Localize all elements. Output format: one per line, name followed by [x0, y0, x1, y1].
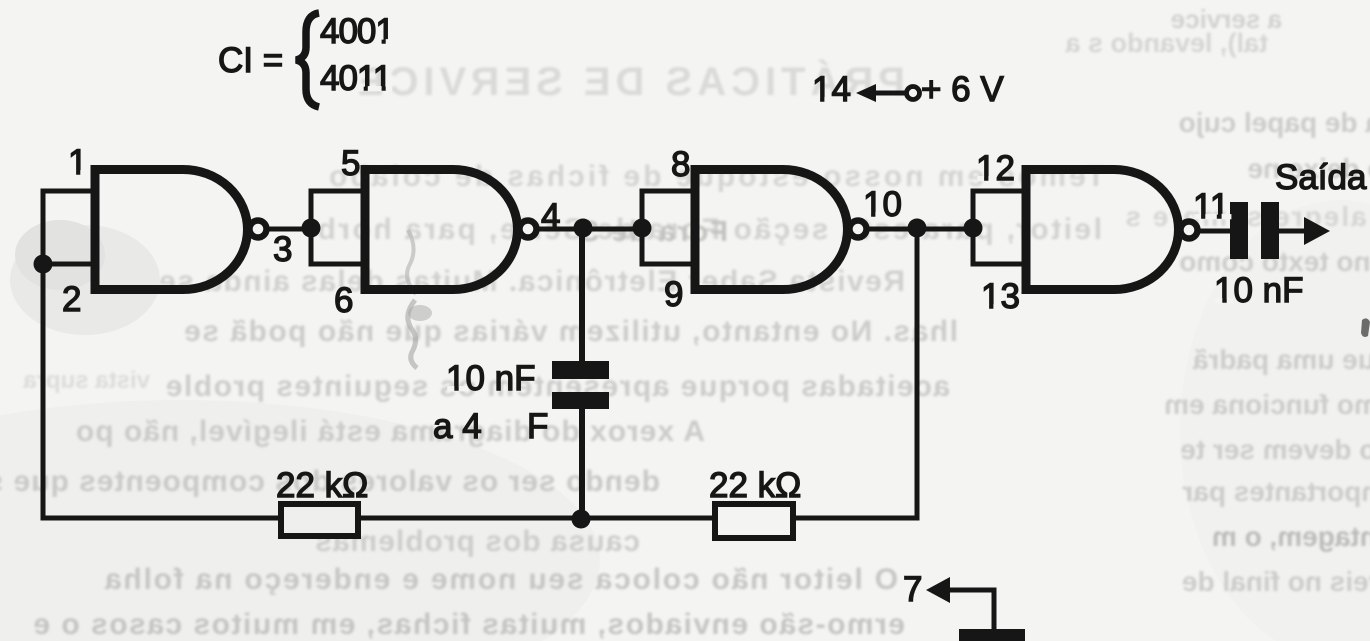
+6V open terminal — [907, 87, 920, 100]
gate U1B body — [365, 170, 518, 290]
svg-text:A xerox do diagrama está ilegí: A xerox do diagrama está ilegível, não p… — [75, 415, 705, 448]
junction dot U1D input — [964, 219, 983, 238]
gate U1C output bubble pin 10 — [850, 221, 867, 238]
stray mark right edge — [1361, 318, 1370, 337]
capacitor C1 top branch wire — [579, 228, 585, 361]
brace for IC types — [296, 13, 319, 107]
svg-text:ontagem, o m: ontagem, o m — [1212, 521, 1370, 552]
svg-text:lhas. No entanto, utilizem vár: lhas. No entanto, utilizem várias que nã… — [183, 315, 958, 348]
svg-text:14: 14 — [812, 70, 851, 109]
svg-text:8: 8 — [671, 145, 690, 184]
gate U1D output bubble pin 11 — [1181, 222, 1198, 239]
pin 1 stub — [43, 189, 95, 194]
svg-text:12: 12 — [976, 149, 1015, 188]
svg-text:omo funciona em: omo funciona em — [1164, 389, 1370, 420]
svg-text:Fora de S: Fora de S — [578, 216, 728, 248]
svg-text:Saída: Saída — [1275, 158, 1367, 197]
svg-text:22 kΩ: 22 kΩ — [709, 466, 801, 505]
gate U1C body — [695, 170, 848, 290]
pin 6 stub — [311, 262, 365, 267]
wire pin3 to U1B — [266, 227, 313, 232]
svg-text:22 kΩ: 22 kΩ — [276, 466, 368, 505]
capacitor C1 bottom plate — [552, 392, 609, 409]
svg-text:10 nF: 10 nF — [446, 359, 536, 398]
svg-text:4001: 4001 — [320, 12, 394, 51]
digit-1 foot-serif trims (font cleanup, not circuit) — [69, 39, 1233, 392]
svg-text:6: 6 — [334, 281, 353, 320]
svg-text:ermo-são enviados, muitas fich: ermo-são enviados, muitas fichas, em mui… — [32, 608, 905, 641]
pin 5 stub — [311, 189, 365, 194]
node A junction dot — [574, 219, 593, 238]
svg-text:7: 7 — [903, 570, 922, 609]
capacitor C2 left plate — [1230, 202, 1248, 259]
svg-text:10: 10 — [863, 185, 902, 224]
svg-text:tal), levando s a: tal), levando s a — [1064, 28, 1268, 58]
junction dot U1C input — [633, 219, 652, 238]
U1C input tie bar — [640, 189, 645, 267]
svg-text:3: 3 — [273, 230, 292, 269]
svg-text:2: 2 — [62, 280, 81, 319]
pin 7 wire to ground — [947, 590, 994, 631]
+6V wire — [874, 91, 907, 96]
svg-text:que uma padrã: que uma padrã — [1192, 344, 1370, 375]
svg-text:10 nF: 10 nF — [1214, 271, 1304, 310]
gate U1D body — [1026, 170, 1179, 290]
svg-text:1: 1 — [68, 143, 87, 182]
svg-text:9: 9 — [664, 275, 683, 314]
capacitor C1 top plate — [552, 361, 609, 379]
svg-text:F: F — [527, 407, 548, 446]
svg-text:O leitor não coloca seu nome e: O leitor não coloca seu nome e endereço … — [103, 563, 898, 596]
output wire pin11 to C2 — [1197, 229, 1232, 234]
pin 8 stub — [642, 189, 695, 194]
pin 7 arrowhead — [926, 577, 950, 603]
svg-text:4: 4 — [541, 197, 560, 236]
pin 12 stub — [973, 189, 1026, 194]
junction dot U1B input — [302, 219, 321, 238]
svg-text:íveis no final de: íveis no final de — [1182, 566, 1370, 597]
gate U1A output bubble pin 3 — [250, 221, 267, 238]
svg-text:a 4: a 4 — [433, 407, 482, 446]
svg-text:CI =: CI = — [218, 41, 283, 80]
svg-text:causa dos problemas: causa dos problemas — [314, 525, 640, 558]
svg-text:13: 13 — [981, 277, 1020, 316]
gate U1B output bubble pin 4 — [520, 221, 537, 238]
junction dot at pin 2 — [34, 255, 53, 274]
resistor R1 body — [281, 504, 358, 536]
U1A input tie bar + left drop wire — [41, 189, 46, 521]
capacitor C2 right plate — [1261, 202, 1279, 259]
output wire C2 to arrow — [1279, 229, 1308, 234]
resistor R2 body — [715, 504, 793, 538]
wire pin10 to node B — [866, 227, 975, 232]
+6V arrowhead — [856, 84, 876, 102]
bottom rail left segment — [43, 516, 281, 521]
ground bar — [959, 629, 1025, 641]
svg-text:na de papel cujo: na de papel cujo — [1179, 107, 1370, 138]
bottom rail middle segment — [358, 516, 715, 521]
pin 13 stub — [973, 262, 1026, 267]
U1D input tie bar — [971, 189, 976, 267]
svg-text:+ 6 V: + 6 V — [921, 70, 1004, 109]
pin 2 stub — [43, 262, 95, 267]
bottom rail right segment + riser to node B — [793, 228, 917, 518]
output arrowhead — [1304, 217, 1330, 245]
svg-text:importantes par: importantes par — [1182, 476, 1370, 507]
gate U1A body — [95, 170, 248, 290]
U1B input tie bar — [309, 189, 314, 267]
pin 9 stub — [642, 262, 695, 267]
wire pin4 to node A — [536, 227, 644, 232]
capacitor C1 bottom branch wire — [579, 409, 585, 520]
svg-text:11: 11 — [1193, 187, 1229, 226]
scan smudges — [10, 220, 432, 368]
node C junction dot — [572, 510, 591, 529]
node B junction dot — [908, 219, 927, 238]
svg-text:ão devem ser te: ão devem ser te — [1180, 434, 1370, 465]
svg-text:5: 5 — [341, 144, 360, 183]
svg-text:4011: 4011 — [320, 59, 391, 98]
